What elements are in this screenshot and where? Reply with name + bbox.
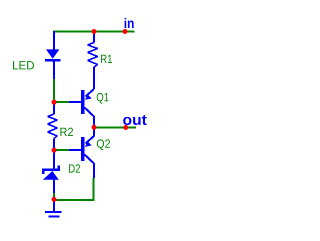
diode LED cathode bar xyxy=(45,59,61,62)
label Q1 xyxy=(97,93,109,104)
label LED xyxy=(13,61,34,69)
junction node out right xyxy=(123,125,128,130)
wire out xyxy=(94,127,136,129)
zener diode D2 cathode bar with hooks xyxy=(42,166,60,175)
transistor Q1 base bar xyxy=(81,90,84,114)
diode LED triangle xyxy=(46,49,59,58)
wire D2 bottom to ground node xyxy=(53,193,55,200)
transistor Q2 collector xyxy=(85,155,95,179)
ground bar 1 xyxy=(45,211,62,213)
diode LED bottom lead xyxy=(53,62,55,80)
label R2 xyxy=(60,128,73,136)
junction node base Q1 xyxy=(52,100,57,105)
transistor Q2 emitter lead from out node xyxy=(86,128,95,144)
label out xyxy=(123,115,147,125)
transistor Q1 base lead xyxy=(69,101,82,103)
resistor R2 xyxy=(53,102,55,150)
ground bar 2 xyxy=(49,216,60,218)
junction node out left xyxy=(92,125,97,130)
transistor Q1 collector xyxy=(85,108,95,128)
label R1 xyxy=(101,55,112,63)
zener diode D2 top lead xyxy=(53,150,55,168)
junction node base Q2 xyxy=(52,148,57,153)
zener diode D2 triangle xyxy=(43,171,59,180)
junction node ground xyxy=(52,197,57,202)
wire LED bottom to node base Q1 xyxy=(53,79,55,102)
label Q2 xyxy=(97,139,110,150)
transistor Q1 emitter diagonal xyxy=(86,89,95,97)
transistor Q2 base bar xyxy=(81,137,84,161)
junction node top of R1 xyxy=(92,29,97,34)
wire ground rail bottom to Q2 collector xyxy=(54,178,94,200)
wire node base Q2 horizontal xyxy=(54,149,69,151)
transistor Q2 base lead xyxy=(69,149,82,151)
zener diode D2 bottom lead xyxy=(53,180,55,194)
label D2 xyxy=(69,164,80,172)
ground lead xyxy=(53,200,55,211)
transistor Q1 emitter arrow xyxy=(85,94,92,100)
junction node in xyxy=(123,29,128,34)
wire node base Q1 horizontal xyxy=(54,101,69,103)
transistor Q2 emitter arrow xyxy=(85,141,92,147)
wire top rail (node in) xyxy=(53,31,135,33)
resistor R1 xyxy=(93,32,95,90)
diode LED (top lead) xyxy=(53,31,55,50)
label in xyxy=(125,18,134,28)
